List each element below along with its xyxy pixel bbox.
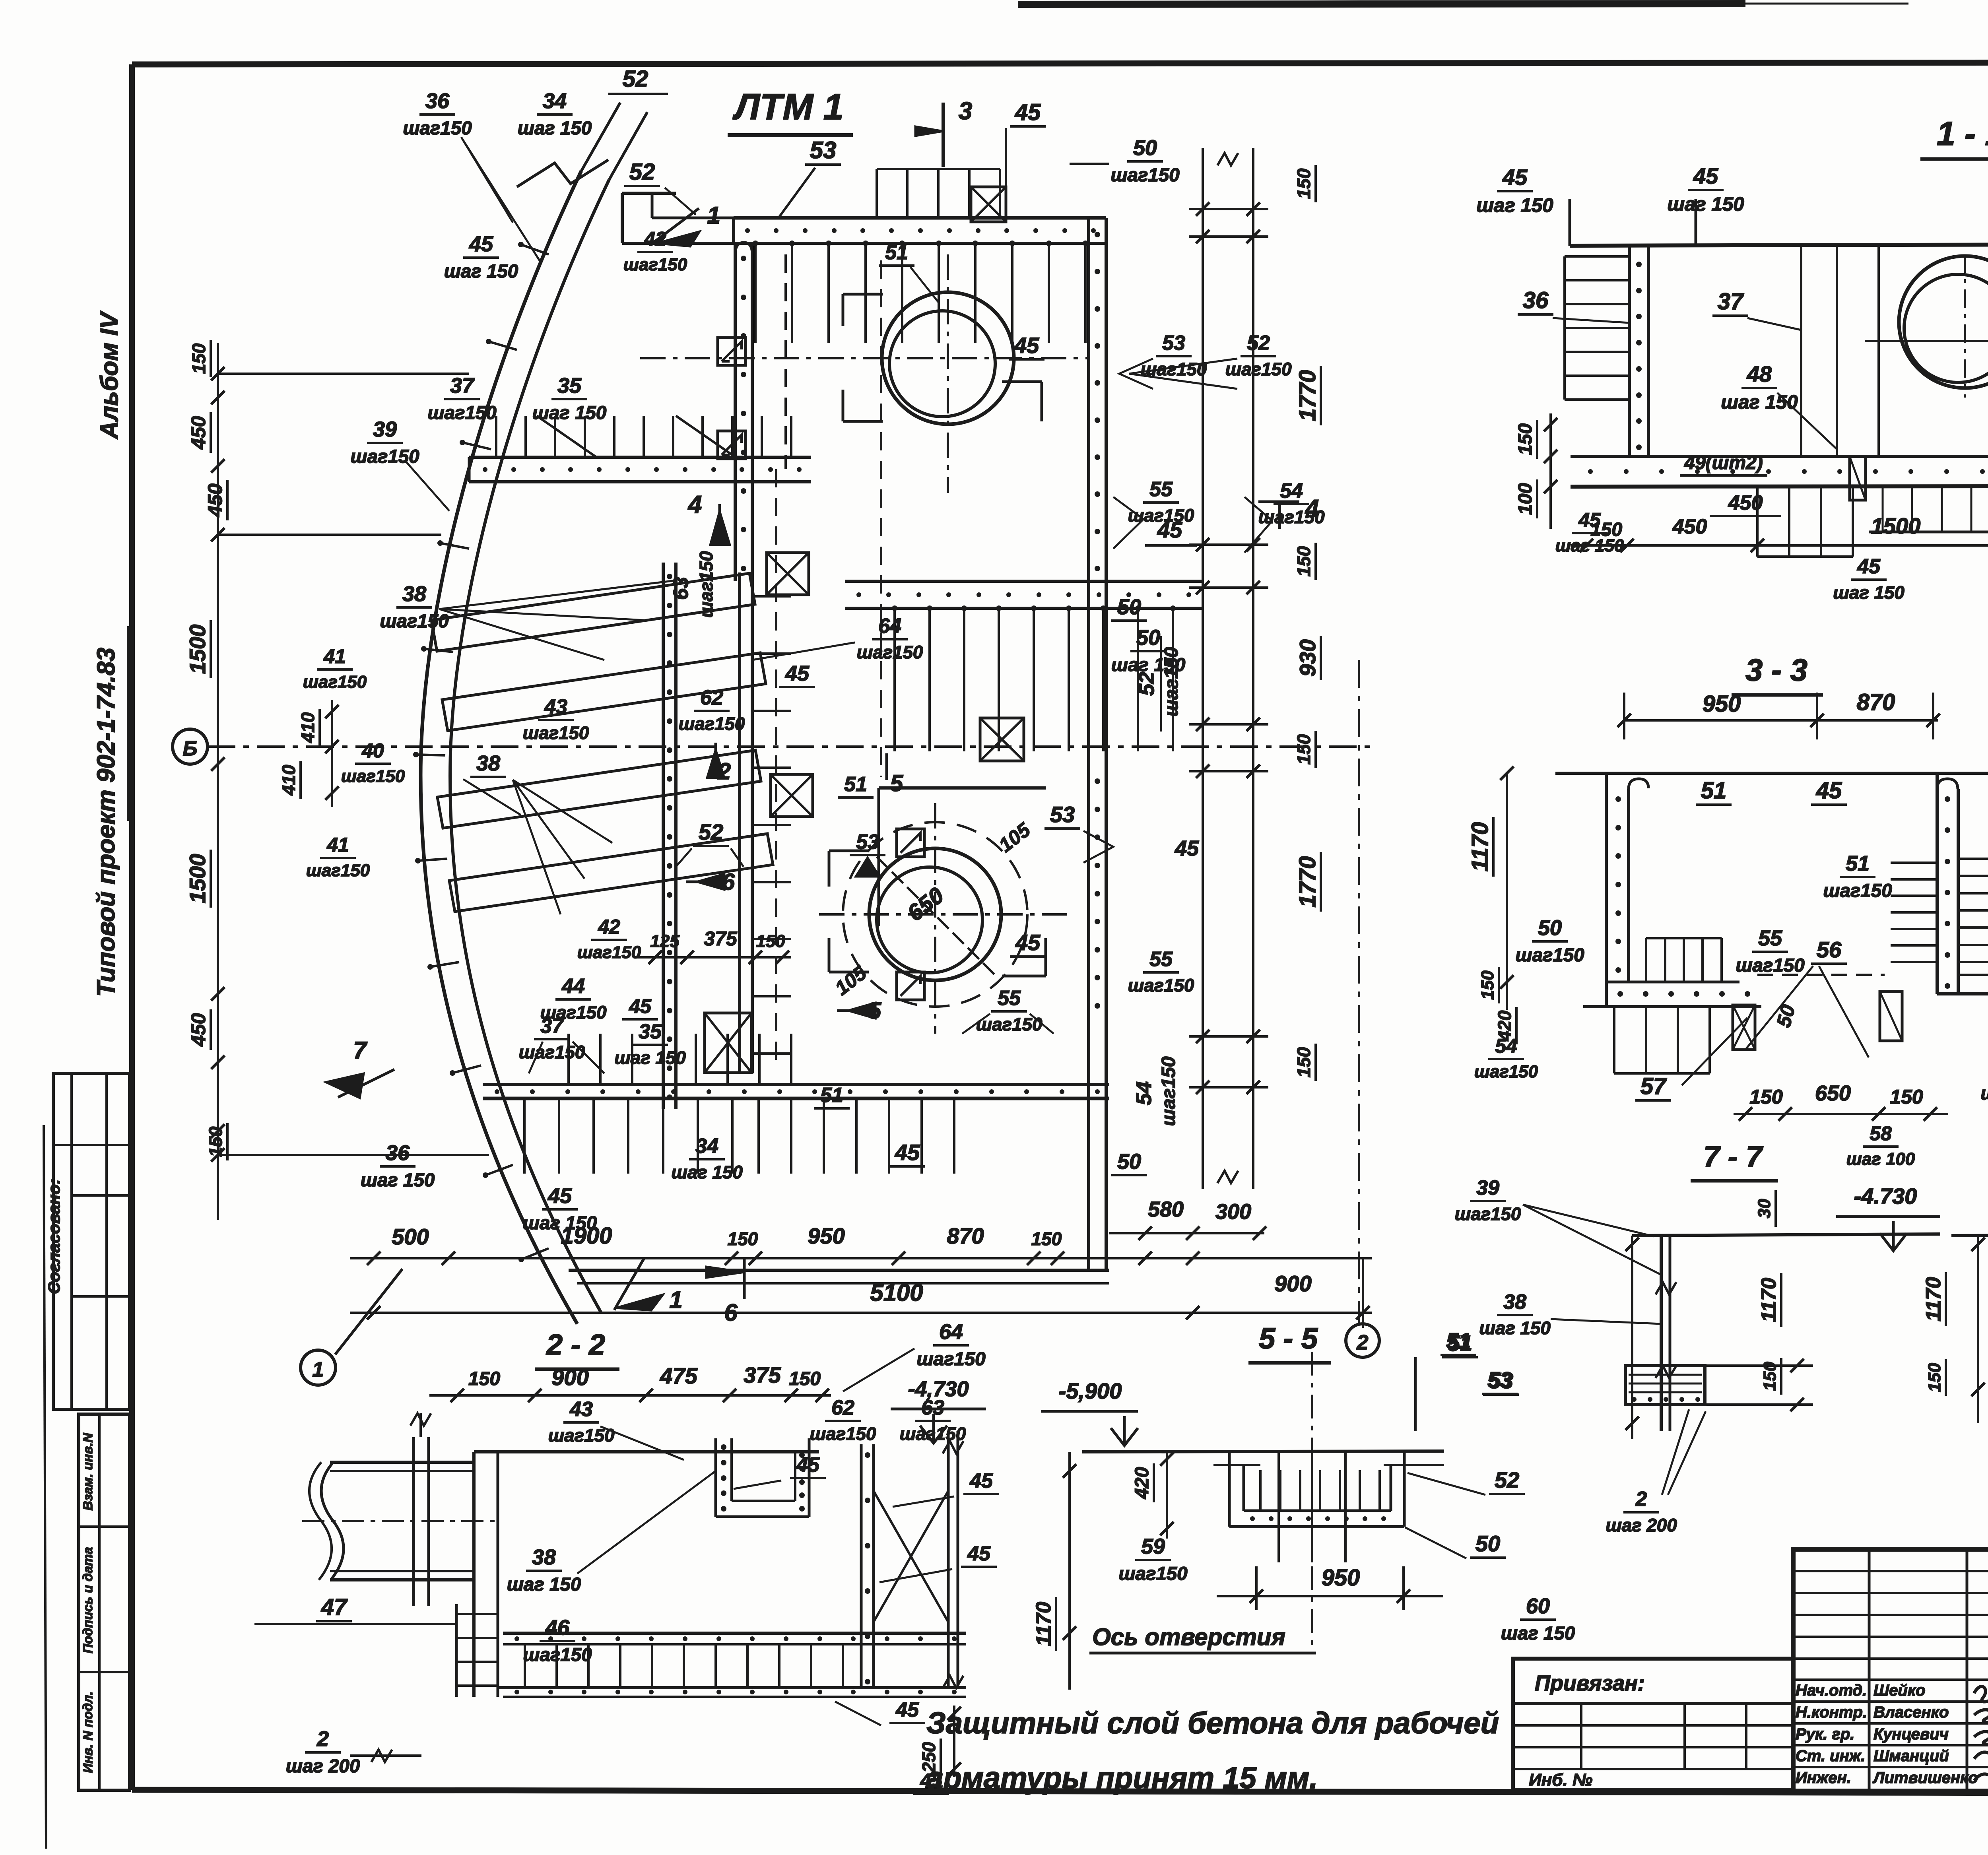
svg-text:43: 43 <box>569 1398 593 1421</box>
svg-text:250: 250 <box>918 1742 939 1773</box>
section 2-2 label 64 shag150 <box>843 1320 986 1391</box>
svg-text:7: 7 <box>353 1037 367 1063</box>
privyazan box <box>1513 1659 1793 1790</box>
svg-text:150: 150 <box>1293 1047 1314 1077</box>
section 2-2 right wall of pipe room <box>474 1452 498 1697</box>
svg-text:64: 64 <box>878 615 901 638</box>
svg-text:45: 45 <box>920 1770 943 1792</box>
svg-text:45: 45 <box>629 995 652 1017</box>
svg-text:Б: Б <box>183 737 198 760</box>
svg-text:Привязан:: Привязан: <box>1535 1671 1645 1695</box>
svg-text:44: 44 <box>561 975 585 998</box>
svg-text:Взам. инв.N: Взам. инв.N <box>80 1432 95 1510</box>
svg-text:Подпись и дата: Подпись и дата <box>80 1547 95 1653</box>
svg-text:шаг150: шаг150 <box>1980 1083 1988 1104</box>
svg-text:51: 51 <box>844 773 867 796</box>
section 1-1 dim 150 100 left <box>1515 413 1557 529</box>
section 2-2 pipe <box>302 1462 499 1580</box>
axis 1 circle <box>301 1269 402 1385</box>
svg-text:45: 45 <box>796 1453 820 1477</box>
section 3-3 left pocket <box>1733 1005 1755 1050</box>
section 5-5 elevation -5.900 <box>1041 1378 1138 1446</box>
svg-text:450: 450 <box>1672 515 1707 538</box>
svg-text:50: 50 <box>1133 136 1157 160</box>
svg-text:шаг 150: шаг 150 <box>1479 1318 1551 1338</box>
svg-text:шаг150: шаг150 <box>857 642 923 662</box>
svg-text:45: 45 <box>895 1140 920 1165</box>
section 7-7 label 39 shag150 <box>1455 1176 1660 1274</box>
section 2-2 top dim chain <box>429 1362 831 1402</box>
svg-text:шаг150: шаг150 <box>696 551 716 618</box>
svg-text:35: 35 <box>639 1020 662 1043</box>
plan label 55 shag150 room2 <box>962 987 1054 1034</box>
plan section mark 5 lower <box>837 998 881 1024</box>
svg-text:шаг150: шаг150 <box>916 1349 985 1370</box>
section 3-3 top dim chain <box>1617 689 1940 739</box>
section 5-5 axis note <box>1089 1352 1316 1653</box>
svg-text:Рук. гр.: Рук. гр. <box>1796 1725 1854 1743</box>
plan label 53 top <box>779 137 841 218</box>
svg-text:45: 45 <box>1015 99 1041 125</box>
svg-text:1 - 1: 1 - 1 <box>1937 115 1988 152</box>
plan label 38 left mid <box>463 751 521 815</box>
svg-text:1170: 1170 <box>1032 1602 1055 1646</box>
svg-text:35: 35 <box>557 374 582 398</box>
svg-text:47: 47 <box>321 1594 348 1620</box>
svg-text:шаг 150: шаг 150 <box>671 1162 743 1182</box>
svg-text:38: 38 <box>476 751 500 775</box>
svg-text:51: 51 <box>885 241 908 264</box>
svg-text:-4.730: -4.730 <box>1854 1184 1917 1209</box>
svg-text:450: 450 <box>187 416 210 450</box>
svg-text:шаг150: шаг150 <box>306 861 370 880</box>
svg-text:2 - 2: 2 - 2 <box>546 1328 605 1361</box>
title block left grid rows <box>1793 1571 1988 1767</box>
plan section mark 3 top <box>915 97 972 167</box>
svg-text:Инв. N подл.: Инв. N подл. <box>80 1691 95 1773</box>
section 2-2 dim 250 <box>918 1706 961 1777</box>
svg-text:45: 45 <box>1693 163 1718 188</box>
section 3-3 right wall <box>1937 773 1988 994</box>
plan label 45 top right <box>1006 99 1046 187</box>
section 7-7 top edge <box>1632 1234 1940 1236</box>
svg-text:900: 900 <box>1274 1271 1311 1296</box>
title block left grid verticals <box>1869 1549 1988 1791</box>
plan label 53 room2 <box>850 830 885 877</box>
svg-text:950: 950 <box>808 1223 845 1248</box>
plan circle2 centerlines <box>819 803 1074 1034</box>
plan anchor plate B2 <box>897 972 924 1000</box>
svg-text:55: 55 <box>1149 948 1173 971</box>
section 1-1 top tie bars <box>1570 199 1988 246</box>
plan middle ladder 63 <box>740 572 791 1073</box>
svg-text:45: 45 <box>1502 165 1528 190</box>
section 3-3 dims 150 420 left <box>1478 967 1516 1044</box>
svg-text:шаг150: шаг150 <box>303 672 367 692</box>
svg-text:39: 39 <box>373 417 397 441</box>
plan upper-left corner bracket <box>622 193 734 243</box>
svg-text:150: 150 <box>756 931 785 951</box>
plan section mark 4 right <box>1258 495 1319 529</box>
svg-text:Шманций: Шманций <box>1873 1747 1949 1765</box>
svg-text:шаг150: шаг150 <box>1823 880 1892 901</box>
svg-text:шаг 150: шаг 150 <box>1667 193 1744 215</box>
plan circle1 opening outer <box>882 292 1014 424</box>
section 5-5 hanger bars <box>1279 1452 1345 1562</box>
plan bottom dim chain B <box>350 1258 1372 1328</box>
svg-text:1170: 1170 <box>1467 822 1493 872</box>
svg-text:930: 930 <box>1295 639 1320 676</box>
svg-text:900: 900 <box>551 1365 588 1390</box>
plan label 52 mid leader <box>676 819 744 867</box>
svg-text:45: 45 <box>1816 778 1842 803</box>
svg-text:2: 2 <box>1635 1488 1647 1511</box>
svg-text:36: 36 <box>425 89 450 113</box>
plan label 64 shag150 mid <box>752 615 923 662</box>
section 3-3 inner bottom comb <box>1646 938 1722 982</box>
svg-text:Альбом IV: Альбом IV <box>96 310 123 440</box>
svg-text:42: 42 <box>598 916 620 938</box>
svg-text:шаг150: шаг150 <box>1225 359 1292 379</box>
plan curved wall break top <box>517 103 647 187</box>
svg-text:55: 55 <box>1758 926 1782 950</box>
section 1-1 left wall <box>1629 246 1648 457</box>
section 2-2 tall wall right <box>943 1431 963 1688</box>
section 1-1 title <box>1920 115 1988 159</box>
svg-text:60: 60 <box>1526 1594 1550 1618</box>
plan top slab comb below <box>754 243 757 343</box>
plan label 52 shag150 rotated right <box>1135 636 1182 732</box>
svg-text:55: 55 <box>1149 478 1173 501</box>
svg-text:51: 51 <box>1446 1328 1471 1353</box>
svg-text:36: 36 <box>386 1141 410 1165</box>
svg-text:150: 150 <box>1293 734 1314 765</box>
svg-text:38: 38 <box>1503 1290 1526 1314</box>
plan label 63 shag150 rotated <box>670 551 716 618</box>
svg-text:Власенко: Власенко <box>1873 1704 1949 1721</box>
plan top slab comb above <box>877 169 1000 218</box>
svg-text:59: 59 <box>1141 1535 1165 1558</box>
svg-text:шаг 150: шаг 150 <box>361 1170 435 1191</box>
svg-text:4: 4 <box>687 491 702 518</box>
section 7-7 label 38 shag150 <box>1479 1290 1661 1338</box>
svg-text:Кунцевич: Кунцевич <box>1873 1725 1949 1743</box>
plan bottom slab <box>483 1085 1109 1098</box>
svg-text:450: 450 <box>1728 491 1763 514</box>
section 2-2 bottom slab <box>498 1633 966 1697</box>
svg-text:870: 870 <box>1857 689 1895 715</box>
section 2-2 tall wall mid <box>861 1444 874 1688</box>
svg-text:48: 48 <box>1747 361 1772 386</box>
section 1-1 bottom rebar band 46 <box>1869 487 1988 532</box>
svg-text:100: 100 <box>1515 483 1536 515</box>
svg-text:45: 45 <box>1175 836 1199 860</box>
svg-text:37: 37 <box>540 1015 564 1038</box>
plan leader from 39 left <box>406 461 449 511</box>
plan circle1 centerlines <box>640 254 1089 493</box>
svg-text:150: 150 <box>1293 546 1314 576</box>
plan section mark 4 left <box>687 491 730 545</box>
section 7-7 elevation -4.730 <box>1836 1184 1940 1251</box>
svg-text:51: 51 <box>1846 852 1870 875</box>
section 2-2 label 47 <box>254 1594 456 1624</box>
section 2-2 dim 1170 right <box>1032 1452 1076 1690</box>
svg-text:2: 2 <box>316 1727 329 1751</box>
svg-text:57: 57 <box>1640 1073 1667 1099</box>
section 5-5 title <box>1248 1322 1331 1363</box>
svg-text:39: 39 <box>1476 1176 1499 1199</box>
title block outer <box>1793 1549 1988 1791</box>
svg-text:1: 1 <box>707 202 720 229</box>
section 7-7 wall <box>1656 1236 1676 1431</box>
svg-text:37: 37 <box>1718 289 1744 314</box>
svg-text:шаг 150: шаг 150 <box>518 118 592 139</box>
svg-text:шаг 150: шаг 150 <box>1476 194 1553 216</box>
svg-text:5: 5 <box>890 770 903 796</box>
plan crossed insert mid1 <box>767 553 809 595</box>
svg-text:50: 50 <box>1117 595 1141 619</box>
svg-text:3 - 3: 3 - 3 <box>1745 652 1807 687</box>
svg-text:52: 52 <box>629 159 655 185</box>
section 7-7 title <box>1691 1140 1778 1181</box>
svg-text:1500: 1500 <box>185 854 210 904</box>
svg-text:шаг150: шаг150 <box>523 1644 592 1665</box>
svg-text:950: 950 <box>1703 691 1741 717</box>
plan leader fan 54 low right <box>1244 497 1272 553</box>
svg-text:шаг150: шаг150 <box>810 1424 876 1444</box>
plan right dim column <box>1189 148 1268 1189</box>
plan bottom slab comb below right <box>757 1098 760 1174</box>
svg-text:52: 52 <box>623 66 648 92</box>
svg-text:30: 30 <box>1755 1199 1774 1218</box>
svg-text:шаг 150: шаг 150 <box>523 1213 597 1234</box>
svg-text:ЛТМ 1: ЛТМ 1 <box>732 87 844 127</box>
section 3-3 dim 1170 left <box>1467 766 1514 1010</box>
section 2-2 top slab edge <box>474 1450 819 1453</box>
plan room2 corner brackets <box>829 851 1046 976</box>
svg-text:шаг150: шаг150 <box>679 714 745 734</box>
section 1-1 bottom dim chain <box>1571 513 1988 552</box>
svg-text:45: 45 <box>1015 930 1041 955</box>
svg-text:41: 41 <box>326 834 349 856</box>
section 7-7 footing block <box>1625 1359 1813 1411</box>
svg-text:34: 34 <box>695 1135 718 1158</box>
svg-text:420: 420 <box>1132 1467 1153 1499</box>
margin text Tipovoy proekt 902-1-74.83 <box>92 626 128 997</box>
svg-text:150: 150 <box>789 1368 821 1389</box>
svg-text:шаг150: шаг150 <box>900 1424 966 1444</box>
svg-text:62: 62 <box>700 686 723 709</box>
svg-text:53: 53 <box>810 137 837 163</box>
svg-text:51: 51 <box>1701 778 1727 803</box>
section 3-3 opening dashed <box>1757 974 1885 976</box>
svg-text:125: 125 <box>650 931 679 951</box>
svg-text:45: 45 <box>547 1184 572 1208</box>
plan label 45 under room1 <box>1145 517 1197 545</box>
plan section mark 2 mid <box>707 743 731 784</box>
plan mid hatched box <box>705 1013 751 1073</box>
svg-text:450: 450 <box>204 483 226 517</box>
svg-text:45: 45 <box>969 1469 993 1492</box>
svg-text:150: 150 <box>1293 168 1314 199</box>
svg-text:53: 53 <box>1050 802 1075 827</box>
svg-text:1500: 1500 <box>185 625 210 674</box>
plan mid band comb below <box>893 608 896 751</box>
svg-text:5100: 5100 <box>870 1279 923 1306</box>
svg-text:5 - 5: 5 - 5 <box>1259 1322 1318 1355</box>
section 2-2 leader 43 <box>600 1426 684 1460</box>
svg-text:Шейко: Шейко <box>1873 1682 1926 1699</box>
svg-text:55: 55 <box>998 987 1021 1010</box>
svg-text:54: 54 <box>1495 1035 1517 1057</box>
section 2-2 label 45 pair top <box>734 1453 999 1507</box>
svg-text:38: 38 <box>402 582 426 606</box>
plan circle2 opening outer <box>869 848 1001 980</box>
svg-text:54: 54 <box>1132 1081 1156 1105</box>
svg-text:шаг150: шаг150 <box>1118 1563 1187 1584</box>
svg-text:шаг150: шаг150 <box>1110 165 1179 186</box>
plan mid band room edge <box>845 581 1202 608</box>
svg-text:шаг 200: шаг 200 <box>286 1756 360 1777</box>
outer sheet edge line left <box>44 1125 46 1849</box>
svg-text:1170: 1170 <box>1757 1278 1780 1322</box>
svg-text:шаг150: шаг150 <box>380 611 448 632</box>
plan bottom slab comb below left <box>523 1098 526 1174</box>
svg-text:40: 40 <box>361 739 384 762</box>
svg-text:300: 300 <box>1215 1200 1251 1224</box>
svg-text:150: 150 <box>1515 423 1536 455</box>
svg-text:Литвишенко: Литвишенко <box>1872 1769 1978 1787</box>
svg-text:37: 37 <box>450 374 475 398</box>
svg-text:45: 45 <box>469 232 493 256</box>
svg-text:500: 500 <box>392 1224 429 1249</box>
plan section mark 6 bottom <box>706 1258 744 1326</box>
svg-text:1770: 1770 <box>1295 370 1320 421</box>
section 2-2 elevation -4.730 <box>891 1377 986 1443</box>
section 2-2 title <box>535 1328 619 1369</box>
svg-text:шаг150: шаг150 <box>427 402 496 423</box>
svg-text:150: 150 <box>1031 1228 1062 1249</box>
plan left dim labels <box>185 340 227 1160</box>
svg-text:шаг150: шаг150 <box>403 118 472 139</box>
plan circle2 dashed ring <box>843 822 1027 1007</box>
axis circle 2 near 5-5 <box>1346 1324 1379 1357</box>
plan label 53 shag150 right <box>1119 332 1207 389</box>
plan circle2 opening inner <box>877 867 982 973</box>
svg-text:7 - 7: 7 - 7 <box>1703 1140 1764 1173</box>
svg-text:375: 375 <box>704 927 738 950</box>
svg-text:Нач.отд.: Нач.отд. <box>1796 1682 1867 1699</box>
svg-text:580: 580 <box>1148 1197 1184 1221</box>
svg-text:150: 150 <box>188 343 209 374</box>
svg-text:50: 50 <box>1538 916 1562 940</box>
section 5-5 label 50 <box>1405 1527 1506 1558</box>
plan leader fan from 36 topleft <box>461 137 541 262</box>
plan top slab edge <box>734 218 1106 243</box>
svg-text:52: 52 <box>699 819 723 844</box>
plan bottom lower edge <box>569 1270 1109 1283</box>
svg-text:150: 150 <box>1478 970 1497 1000</box>
svg-text:410: 410 <box>297 712 318 743</box>
plan section mark 6 mid <box>686 869 735 895</box>
plan room2 right wall <box>1089 767 1106 1018</box>
svg-text:шаг 150: шаг 150 <box>614 1048 686 1068</box>
section 5-5 slab and trough <box>1082 1451 1444 1527</box>
svg-text:45: 45 <box>1857 555 1881 578</box>
plan middle sloped beams <box>431 573 773 912</box>
svg-text:шаг150: шаг150 <box>1455 1204 1521 1224</box>
svg-text:шаг 100: шаг 100 <box>1846 1149 1915 1169</box>
svg-text:шаг 150: шаг 150 <box>1833 582 1905 603</box>
section 3-3 right outer ladder <box>1958 858 1988 860</box>
svg-text:58: 58 <box>1870 1122 1892 1145</box>
section 5-5 trough comb <box>1259 1470 1262 1511</box>
plan leader fan from 38 upper <box>439 580 676 660</box>
svg-text:шаг150: шаг150 <box>523 723 589 743</box>
section 3-3 left wall <box>1606 773 1648 1007</box>
svg-text:36: 36 <box>1523 287 1549 313</box>
axis 2 centerline vertical <box>1358 660 1360 1324</box>
svg-text:45: 45 <box>785 662 810 685</box>
svg-text:45: 45 <box>895 1698 919 1721</box>
plan anchor plate B1 <box>897 829 924 857</box>
svg-text:150: 150 <box>1749 1086 1783 1108</box>
plan left dim chain <box>211 343 489 1220</box>
plan dim 410 labels <box>278 700 339 807</box>
plan crossed insert mid3 <box>980 718 1024 761</box>
svg-text:3: 3 <box>959 97 972 125</box>
svg-text:1770: 1770 <box>1295 856 1320 907</box>
svg-text:Инб. №: Инб. № <box>1529 1770 1592 1790</box>
svg-text:шаг150: шаг150 <box>577 943 641 962</box>
scanner artifact strip top <box>1018 4 1745 4</box>
plan chain 125 375 150 <box>636 927 791 964</box>
svg-text:1500: 1500 <box>1871 513 1921 538</box>
section 1-1 bottom slab <box>1571 456 1988 487</box>
section 3-3 under-slab comb <box>1614 1007 1710 1073</box>
svg-text:Ось отверстия: Ось отверстия <box>1092 1624 1285 1650</box>
svg-text:410: 410 <box>278 765 299 796</box>
svg-text:950: 950 <box>1322 1565 1360 1591</box>
svg-text:50: 50 <box>1117 1150 1141 1174</box>
plan label 50 shag150 top right <box>1070 136 1180 186</box>
svg-text:43: 43 <box>544 695 567 718</box>
section 5-5 label 52 <box>1408 1467 1525 1495</box>
svg-text:шаг 150: шаг 150 <box>507 1574 581 1595</box>
section 1-1 pipe circle inner <box>1904 274 1988 382</box>
svg-text:Ст. инж.: Ст. инж. <box>1796 1747 1865 1765</box>
plan curved wall hatch <box>413 242 549 1262</box>
svg-text:шаг 150: шаг 150 <box>1501 1623 1575 1644</box>
svg-text:45: 45 <box>1157 517 1182 542</box>
svg-text:46: 46 <box>545 1616 570 1640</box>
plan circle1 opening inner <box>889 311 995 417</box>
section 2-2 label 45 below slab <box>835 1698 925 1725</box>
plan curved wall inner edge <box>450 180 609 1313</box>
title block signatures <box>1796 1682 1988 1787</box>
svg-text:шаг150: шаг150 <box>341 766 405 786</box>
section 1-1 under-slab combs left <box>1757 487 1853 557</box>
svg-text:150: 150 <box>1590 519 1622 540</box>
section 3-3 right pocket <box>1880 992 1902 1041</box>
section 2-2 label 45 mid <box>879 1542 997 1582</box>
svg-text:41: 41 <box>323 645 346 667</box>
plan right wall lower part <box>1089 1018 1106 1270</box>
svg-text:Защитный слой бетона для р: Защитный слой бетона для рабочей <box>926 1706 1499 1740</box>
svg-text:62: 62 <box>831 1396 854 1419</box>
section 6-6 dim 1170 left <box>1922 1236 1985 1423</box>
svg-text:1: 1 <box>313 1358 324 1381</box>
